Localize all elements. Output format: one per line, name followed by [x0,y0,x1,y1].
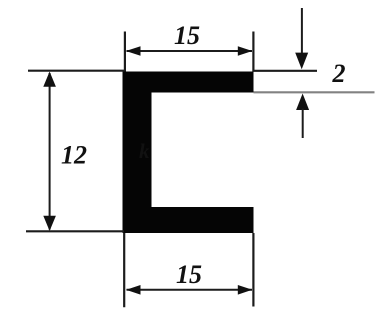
arrow down of 2 dimension [295,53,308,70]
dimension line 15 top [127,50,253,52]
extension line left-bottom for 12 [26,230,124,232]
dimension line 12 left [49,73,51,230]
svg-text:k: k [139,139,150,163]
svg-text:12: 12 [61,141,87,170]
extension line left-top for 12 [28,70,124,72]
arrow down of left dimension [43,216,56,231]
extension line bottom-left [123,233,125,307]
arrow right of top dimension [238,46,253,56]
arrow left of bottom dimension [126,285,141,295]
svg-text:15: 15 [174,21,200,50]
lower tail line of 2 dimension [302,109,304,139]
upper tail line of 2 dimension [301,8,303,54]
dimension line 15 bottom [127,289,253,291]
arrow up of 2 dimension [296,94,309,111]
extension line top-left [124,32,126,72]
C-channel profile body [123,72,254,234]
extension line top-right [252,32,254,72]
svg-text:15: 15 [176,260,202,289]
arrow left of top dimension [126,46,141,56]
leader line at flange top for 2 [254,70,318,72]
gray leader line at flange bottom for 2 [254,91,375,93]
arrow up of left dimension [43,72,56,87]
extension line bottom-right [252,233,254,307]
arrow right of bottom dimension [238,285,253,295]
svg-text:2: 2 [332,59,346,88]
